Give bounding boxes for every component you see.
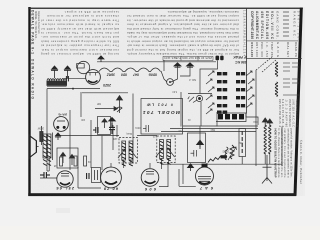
- wire antenna horizontal: [47, 88, 100, 90]
- V7 cathode crescent: [199, 182, 210, 184]
- tube V6 (6C6): [141, 169, 159, 187]
- table left border: [245, 9, 248, 114]
- scattered component value labels: [53, 90, 258, 166]
- ground mid B: [187, 63, 194, 68]
- filter box with arrows: [57, 148, 78, 168]
- output tube 6A4 circle: [54, 117, 69, 132]
- wire pilot loop: [171, 68, 178, 83]
- wire vertical x=217 plugarea: [216, 114, 218, 127]
- smudge below page: [56, 208, 70, 213]
- socket voltage text block right: [278, 99, 298, 128]
- cap at condenser box left: [93, 127, 98, 133]
- alignment instruction paragraph left column (rotated 180): [40, 10, 119, 56]
- wire to 25Z5 left: [62, 78, 86, 80]
- wave trap box: [239, 129, 246, 165]
- wire vertical x=256: [255, 70, 257, 166]
- V5 top cap arc: [106, 171, 116, 173]
- electrolytic terminal strip: [218, 114, 244, 119]
- speaker cone: [29, 134, 38, 159]
- volume pot wiper arrow: [95, 107, 118, 111]
- wire switch drop x=201: [200, 102, 202, 126]
- V5 cathode crescent: [105, 182, 117, 185]
- wire B+ bus y=126.5: [183, 125, 258, 127]
- bottom page border: [28, 193, 296, 196]
- output transformer hatched: [47, 133, 52, 166]
- V6 cathode crescent: [145, 181, 156, 183]
- table bottom divider: [246, 57, 302, 60]
- socket punching black squares column A: [217, 72, 227, 114]
- wire tube V7 to bus: [206, 163, 208, 164]
- wire vertical x=78 bottom: [77, 167, 79, 188]
- wire bottom bus y=164: [161, 163, 282, 165]
- resistor arrow: [228, 147, 236, 160]
- wire left vertical x=47: [46, 89, 48, 171]
- oscillator coil secondary: [269, 125, 271, 154]
- ground left B: [64, 66, 71, 78]
- socket table dashes right middle: [283, 63, 299, 95]
- trimmer screw coil lower: [275, 82, 277, 96]
- trimmer screw coil upper: [275, 62, 277, 76]
- volume control arrow: [117, 96, 123, 113]
- wire vertical x=81: [80, 92, 82, 117]
- resistive line cord zigzag: [99, 68, 161, 72]
- copyright/alignment table top right: [246, 9, 302, 114]
- tube V5 (6D6): [101, 167, 122, 188]
- dial pointer dashed arrows: [256, 57, 276, 72]
- cap near V4 right: [87, 173, 89, 179]
- wire horizontal below V4: [40, 177, 57, 179]
- V6 grid marks: [146, 172, 154, 174]
- socket punching arrows col B right marks: [246, 71, 254, 108]
- IF2 secondary winding: [167, 140, 171, 165]
- series capacitor in antenna lead: [66, 76, 68, 81]
- V4 cathode crescent: [60, 183, 70, 185]
- wire vertical x=200 down: [199, 127, 201, 148]
- junction dot: [72, 88, 74, 90]
- wire below V7: [179, 185, 196, 187]
- V7 grid cap blob: [202, 164, 208, 168]
- table dash column rows: [283, 12, 289, 36]
- wire vertical x=282: [281, 127, 283, 167]
- wire horizontal y=135 mid: [137, 135, 157, 137]
- gang condenser block box: [98, 117, 111, 135]
- IF2 trimmer arrows: [156, 148, 163, 157]
- grid cap blob: [221, 155, 227, 158]
- arrows above osc coils: [262, 118, 272, 126]
- antenna symbol bottom right (flipped, arrow up): [262, 155, 272, 184]
- wire label box outline: [141, 99, 183, 135]
- top page border: [28, 8, 303, 9]
- filter arrow 1: [60, 152, 65, 163]
- IF transformer 2 dashed box: [157, 136, 175, 163]
- tube V7 (6A7): [196, 167, 214, 185]
- rectifier tube 25Z5 upper circle: [77, 61, 89, 73]
- wire speaker transformer lead: [48, 158, 50, 171]
- local-distance switch: [188, 95, 203, 102]
- oscillator coil primary: [264, 125, 266, 154]
- wire bottom of heater to pilot: [161, 71, 167, 82]
- electrolytic arrow inside box: [197, 140, 204, 149]
- wire vertical x=183 bottom: [182, 164, 184, 184]
- scan noise overlay: [29, 7, 303, 196]
- ground top center: [98, 56, 104, 62]
- ground below 6A4: [55, 133, 61, 140]
- pilot lamp: [167, 79, 174, 86]
- wire vertical x=181: [180, 92, 182, 127]
- coupling cap left of V4: [40, 172, 50, 178]
- speaker voice coil hatched: [43, 134, 47, 166]
- V4 grid bars: [61, 174, 69, 176]
- socket punching arrows col A left marks: [206, 71, 214, 114]
- B+ resistor vertical zigzag: [230, 145, 234, 159]
- wire mid horizontal y=93: [82, 92, 128, 94]
- wire y=93.5 horizontal: [188, 93, 212, 95]
- filter arrow 2: [69, 154, 74, 165]
- antenna coil L1: [47, 79, 68, 87]
- wire vertical x=168 bottom: [167, 163, 169, 187]
- wire vertical x=164 textrow: [163, 60, 165, 71]
- IF2 primary winding: [160, 140, 164, 165]
- wire shield bus y=131.6: [161, 131, 256, 133]
- wire top horizontal bus: [97, 61, 216, 63]
- small choke coil: [225, 147, 228, 160]
- IF1 secondary winding: [129, 141, 133, 166]
- AC line plug: [216, 56, 224, 61]
- left page border: [28, 7, 30, 196]
- gang condenser trimmer arrow: [102, 119, 107, 128]
- grid leak resistor diag: [208, 156, 221, 163]
- output tube V4 (25L6): [57, 171, 73, 187]
- wire IF2 leads down: [161, 159, 163, 170]
- V7 grid hatch: [198, 177, 211, 182]
- wire horizontal y=188: [78, 187, 101, 189]
- wire horizontal y=135 left: [59, 135, 119, 137]
- right page border (slanted): [294, 8, 303, 196]
- wire vertical x=102: [101, 136, 103, 171]
- wire vertical x=91: [90, 120, 92, 168]
- IF1 primary winding: [122, 141, 126, 166]
- resistor bars above V4: [60, 156, 87, 166]
- ground arrow below box: [188, 164, 194, 171]
- wire B- bus y=128.5: [170, 128, 258, 130]
- ground mid A (above pilot loop): [174, 63, 181, 68]
- ground left A: [51, 66, 58, 78]
- resistor small vertical: [40, 126, 43, 145]
- small box right of V4: [92, 168, 101, 183]
- main wires group: [40, 60, 282, 188]
- wire IF1 leads down: [123, 160, 125, 168]
- wire horizontal y=187 right of V6: [159, 186, 168, 188]
- rectifier tube 25Z5 label plate: [77, 64, 85, 68]
- 6A4 electrodes: [56, 126, 59, 129]
- wire tube V5 top: [110, 163, 112, 167]
- wire tube V6 top: [149, 163, 151, 168]
- heater string tube labels (flipped): [106, 73, 157, 77]
- terminal strip bracket: [216, 113, 246, 122]
- alignment paragraph right column (rotated 180): [126, 10, 240, 56]
- rectifier cathode marks: [88, 81, 98, 83]
- wire from table border to osc: [246, 114, 258, 125]
- capacitor pair left of IF1: [109, 123, 115, 134]
- wire plug drop: [200, 61, 218, 94]
- wire vertical x=133: [132, 94, 134, 164]
- note text block bottom right (vertical): [277, 129, 293, 179]
- socket punching black squares column B: [236, 72, 245, 107]
- wire vertical x=70: [69, 110, 71, 170]
- wire osc coil drops: [264, 153, 266, 164]
- rectifier tube 25Z5 main circle: [86, 70, 101, 85]
- ground above cap: [109, 117, 116, 123]
- IF transformer 1 dashed box: [119, 138, 137, 164]
- wire chassis-box verticals: [112, 125, 114, 150]
- bypass condenser box: [188, 133, 206, 163]
- IF1 trimmer arrows: [118, 149, 125, 158]
